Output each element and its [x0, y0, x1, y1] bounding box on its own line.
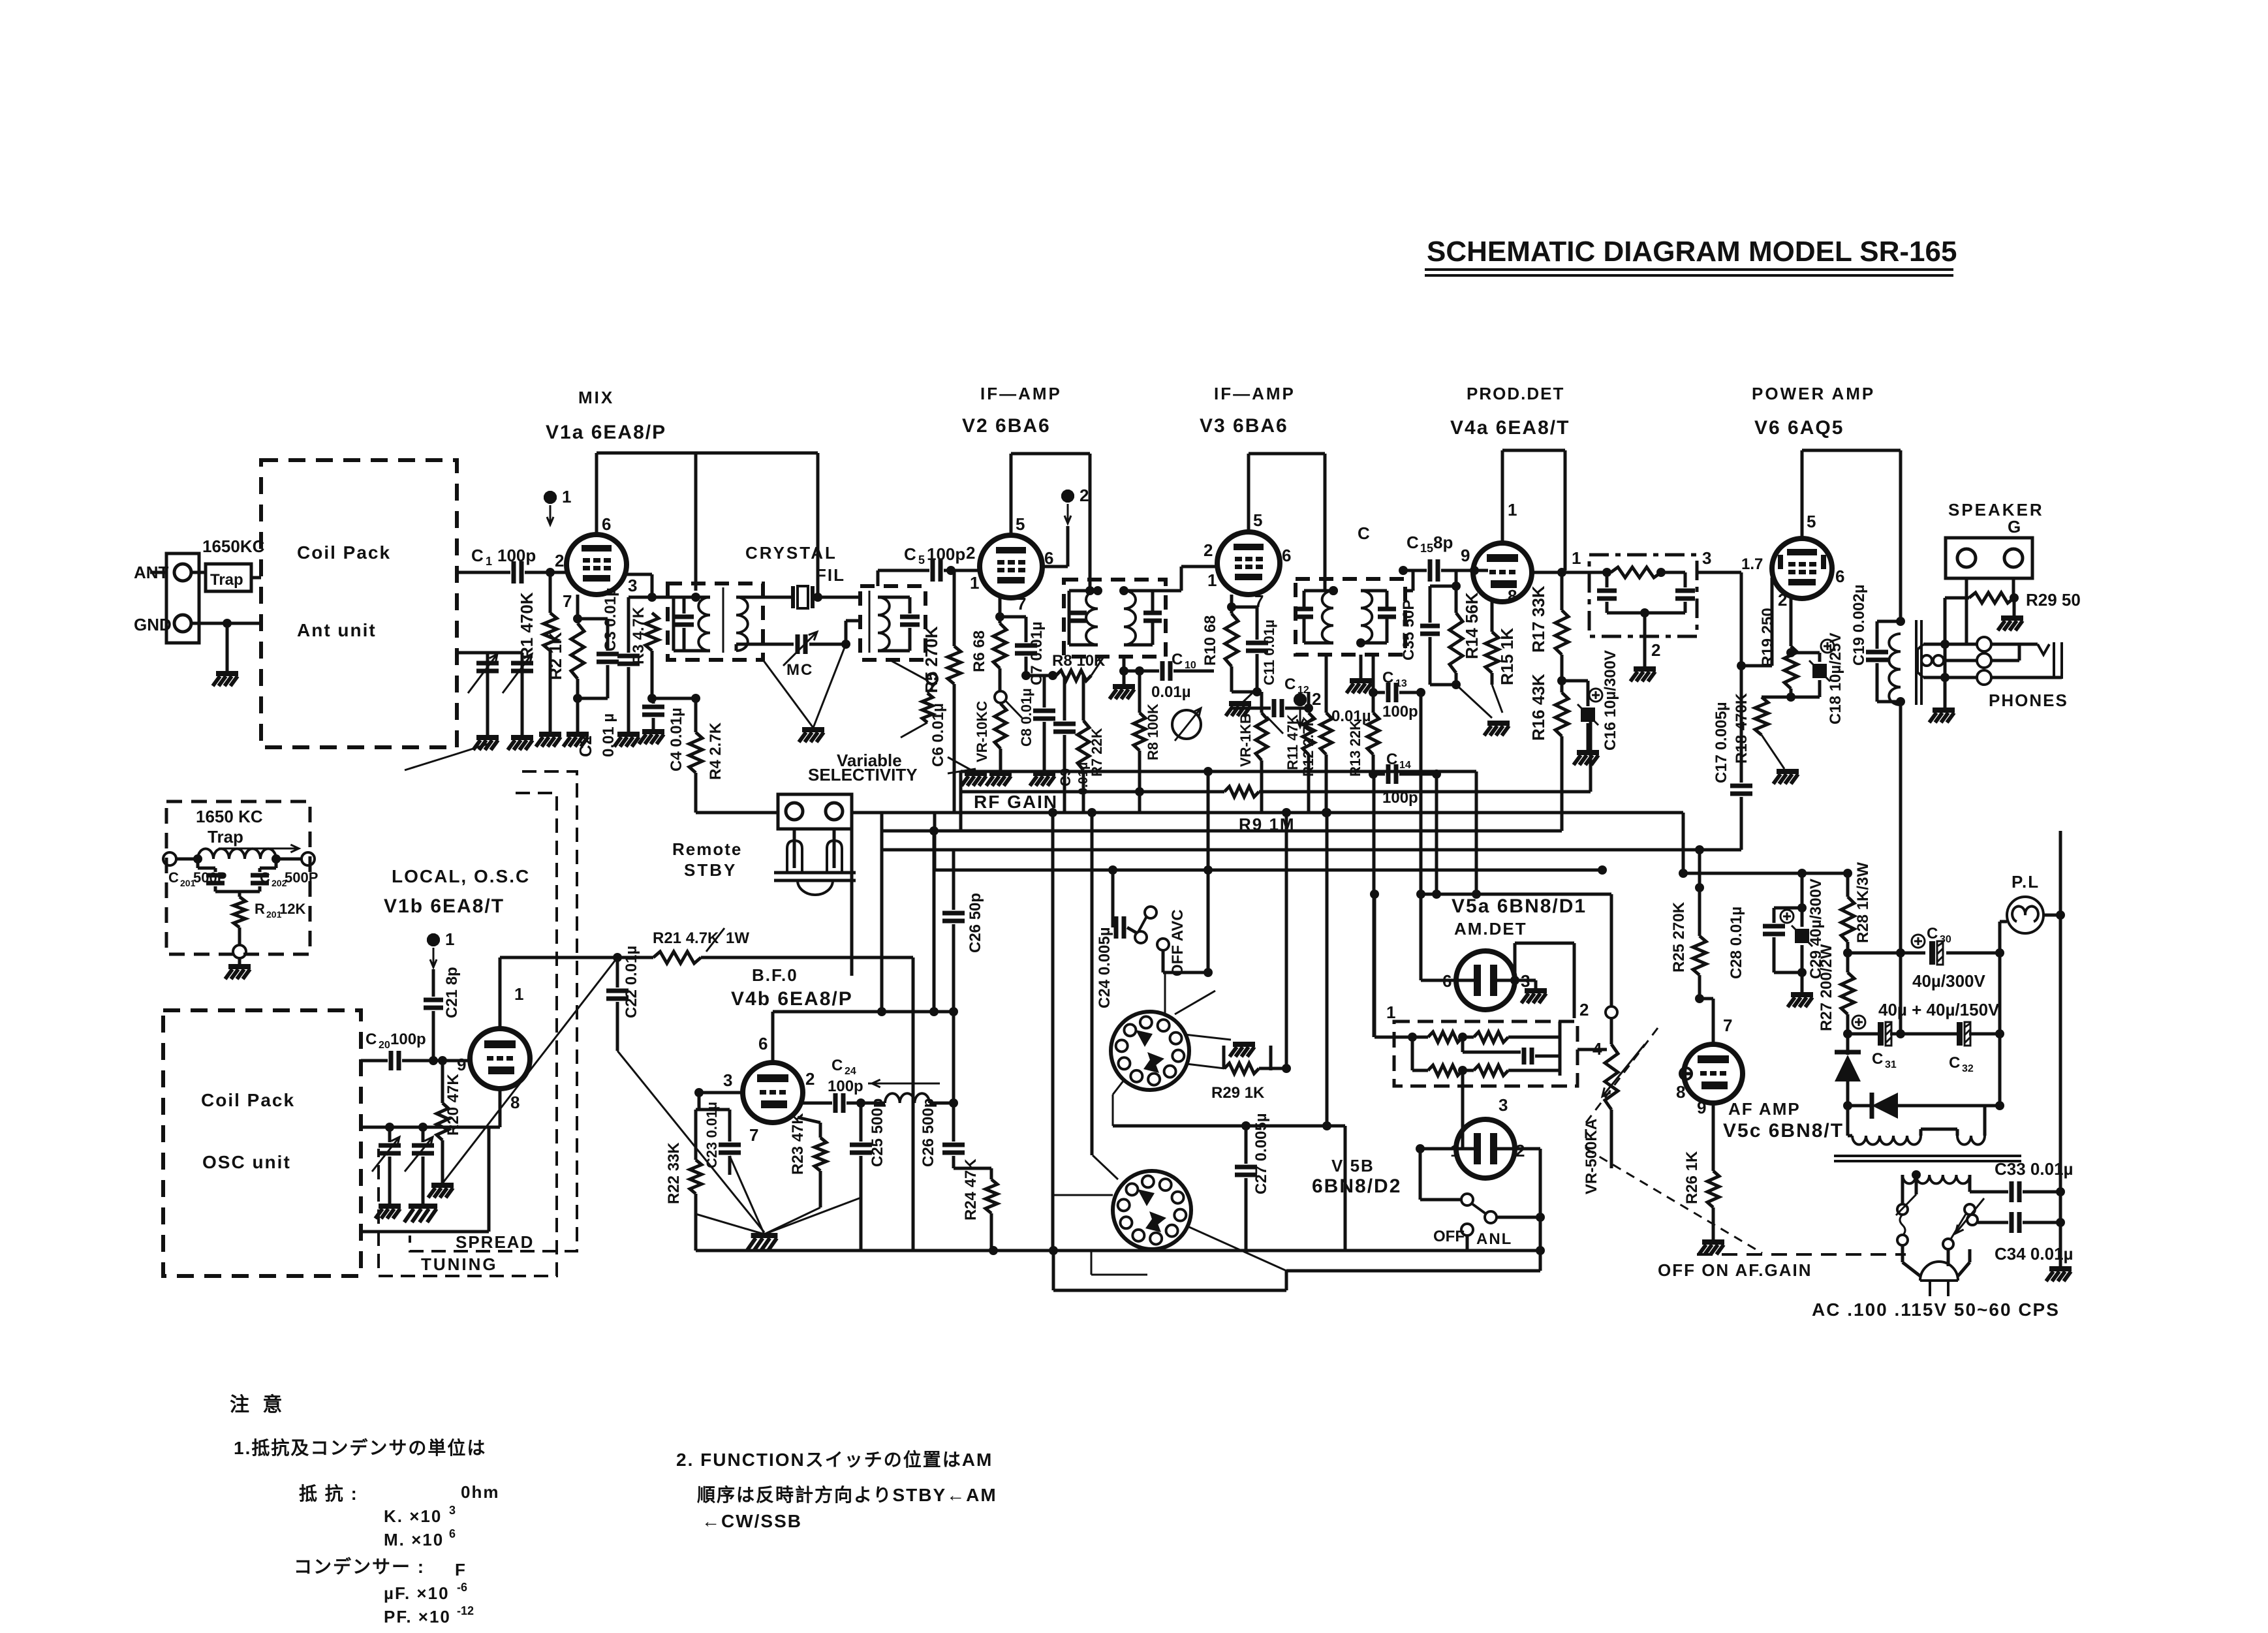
ground V6 cathode — [1773, 771, 1799, 784]
svg-text:20: 20 — [379, 1040, 390, 1051]
wire x1431 drop — [929, 826, 939, 1016]
label Remote — [672, 839, 742, 859]
tube V5a 6BN8/D1 — [1456, 951, 1515, 1010]
resistor R1 470K — [517, 572, 561, 747]
wire box pin2 — [1559, 1021, 1562, 1037]
resistor R10 68 — [1202, 595, 1238, 692]
capacitor C18 10u/25V — [1791, 632, 1844, 724]
wire V4a out right — [1532, 568, 1589, 577]
svg-text:6: 6 — [1835, 567, 1844, 586]
svg-text:ANL: ANL — [1476, 1230, 1512, 1248]
label 6BN8/D2 — [1312, 1175, 1401, 1197]
label RF GAIN — [974, 792, 1058, 812]
socket S1 leads — [1113, 972, 1231, 1126]
pin 8 label V5c — [1676, 1082, 1685, 1102]
svg-text:C: C — [1284, 676, 1296, 693]
svg-text:R6 68: R6 68 — [971, 630, 988, 672]
capacitor C31 — [1843, 1016, 1957, 1070]
resistor R2 1K — [546, 595, 589, 747]
svg-text:PF. ×10: PF. ×10 — [384, 1607, 451, 1626]
note 1 resistors — [234, 1437, 486, 1458]
label V5c 6BN8/T — [1723, 1120, 1844, 1142]
note K — [384, 1504, 456, 1526]
resistor R6 68 — [971, 598, 1006, 691]
wire bus y1916 right — [1053, 1246, 1545, 1255]
wire V4a plate — [1502, 450, 1565, 570]
resistor R8 10K horizontal — [1026, 652, 1106, 681]
capacitor C35 50P — [1400, 586, 1456, 685]
svg-text:C22 0.01µ: C22 0.01µ — [623, 946, 640, 1018]
capacitor C202 500P — [251, 859, 318, 892]
svg-text:C19 0.002µ: C19 0.002µ — [1850, 584, 1868, 666]
svg-text:5: 5 — [1807, 512, 1816, 531]
node GND junction — [223, 619, 232, 628]
svg-text:R25 270K: R25 270K — [1670, 901, 1688, 972]
variable capacitor C-ant2 — [488, 653, 533, 750]
resistor R4 2.7K — [689, 698, 724, 813]
svg-text:C4 0.01µ: C4 0.01µ — [668, 708, 685, 771]
capacitor C20 100p — [361, 1031, 470, 1070]
svg-text:6: 6 — [602, 514, 611, 534]
wire ANT to trap — [150, 571, 206, 574]
wire T1 sec bottom to MC — [736, 644, 763, 651]
pin 3 label box — [0, 0, 1, 1]
label V5B — [1331, 1156, 1375, 1175]
wire VR wiper to V5c — [1680, 1068, 1692, 1080]
socket S2 leads — [1054, 1155, 1286, 1275]
wire R3-R4 — [652, 697, 696, 700]
svg-text:30: 30 — [1940, 934, 1951, 945]
svg-text:2: 2 — [1080, 486, 1089, 505]
wire V2 pin6 heater — [1042, 526, 1068, 567]
svg-text:C: C — [365, 1031, 377, 1048]
svg-text:R: R — [255, 901, 265, 917]
svg-text:C16 10µ/300V: C16 10µ/300V — [1602, 650, 1619, 751]
label CRYSTAL — [745, 543, 837, 563]
svg-text:抵 抗 :: 抵 抗 : — [299, 1483, 358, 1504]
wire selectivity switch — [890, 660, 937, 738]
svg-text:5: 5 — [1016, 514, 1025, 534]
note cwssb — [702, 1511, 802, 1531]
label PHONES — [1989, 691, 2068, 710]
capacitor T5 left — [1597, 572, 1617, 613]
svg-text:2: 2 — [1204, 540, 1213, 560]
variable capacitor osc1 — [372, 1127, 401, 1219]
svg-text:-6: -6 — [457, 1581, 467, 1594]
pin 1 label V5b — [1450, 1141, 1459, 1160]
tube V5c 6BN8/T — [1684, 1044, 1743, 1103]
svg-text:V2 6BA6: V2 6BA6 — [962, 415, 1051, 437]
wire bus y1333 — [935, 865, 1607, 875]
resistor R17 33K — [1529, 572, 1568, 692]
wire T1 secondary to crystal — [736, 596, 793, 599]
resistor R18 470K — [1733, 692, 1791, 769]
coil T4 secondary — [1361, 591, 1372, 643]
capacitor T2 tuning — [878, 597, 920, 651]
svg-text:0.01 µ: 0.01 µ — [600, 713, 617, 757]
wire V5a right gnd — [1510, 976, 1547, 1003]
svg-text:Remote: Remote — [672, 839, 742, 859]
svg-text:コンデンサー :: コンデンサー : — [294, 1556, 425, 1577]
svg-text:1: 1 — [970, 573, 979, 593]
pin 7 label V3 — [1254, 591, 1264, 611]
IF transformer T1 box — [668, 583, 763, 660]
dashed af gain line — [1697, 1253, 1906, 1256]
capacitor T4 left — [1295, 591, 1333, 643]
capacitor C7 0.01u — [1000, 617, 1046, 685]
tube socket S1 — [1111, 1012, 1189, 1090]
svg-text:OFF: OFF — [1433, 1228, 1465, 1245]
resistor R19 250 — [1759, 599, 1797, 702]
svg-text:注 意: 注 意 — [230, 1393, 286, 1416]
svg-text:IF—AMP: IF—AMP — [1214, 384, 1296, 403]
node C5 out — [946, 566, 955, 575]
label C above C15 — [1358, 523, 1370, 543]
svg-text:2: 2 — [555, 551, 564, 570]
svg-text:R21 4.7K: R21 4.7K — [653, 929, 719, 947]
diagonal R20 to C22 node — [443, 957, 617, 1183]
svg-text:OFF ON AF.GAIN: OFF ON AF.GAIN — [1658, 1260, 1812, 1280]
label TUNING — [421, 1254, 498, 1274]
svg-text:SCHEMATIC DIAGRAM MODEL SR-165: SCHEMATIC DIAGRAM MODEL SR-165 — [1427, 236, 1957, 268]
svg-text:R15 1K: R15 1K — [1497, 628, 1517, 685]
capacitor C14 100p — [1369, 751, 1441, 807]
label V1a 6EA8/P — [546, 422, 666, 443]
wire GND to coilpack — [191, 622, 261, 625]
coil T2 — [878, 597, 890, 651]
node MC right — [841, 621, 860, 649]
svg-text:R17 33K: R17 33K — [1529, 585, 1548, 653]
svg-text:2: 2 — [1651, 640, 1660, 660]
wire bus y1213 — [961, 787, 1224, 796]
heater 2 V2 — [1061, 486, 1089, 523]
tube V3 6BA6 — [1217, 532, 1280, 595]
svg-text:8: 8 — [510, 1093, 520, 1112]
svg-text:100p: 100p — [390, 1031, 426, 1048]
pin 9 label V5c — [1697, 1098, 1706, 1117]
ground T4 — [1346, 655, 1372, 693]
svg-text:C24 0.005µ: C24 0.005µ — [1096, 927, 1113, 1008]
svg-text:R29 50: R29 50 — [2026, 590, 2081, 610]
pin 9 label V1b — [457, 1055, 466, 1074]
svg-text:R23 47K: R23 47K — [789, 1113, 807, 1175]
svg-text:1.抵抗及コンデンサの単位は: 1.抵抗及コンデンサの単位は — [234, 1437, 486, 1458]
ground V4a — [1456, 685, 1510, 736]
pin 6 label V1a — [602, 514, 611, 534]
label V2 6BA6 — [962, 415, 1051, 437]
wire V4b plate loop — [773, 1007, 958, 1063]
pin 7 label V1a — [563, 591, 572, 611]
label V4b 6EA8/P — [731, 988, 853, 1010]
note M — [384, 1527, 456, 1549]
label V1b 6EA8/T — [384, 895, 505, 917]
wire bus y1977 — [1053, 1251, 1540, 1290]
svg-text:VR-10KC: VR-10KC — [974, 701, 990, 762]
resistor R13 22K — [1347, 655, 1379, 777]
svg-text:40µ/300V: 40µ/300V — [1912, 971, 1986, 991]
wire vert x1613 — [1051, 813, 1055, 1251]
pin 4 label box — [1592, 1039, 1602, 1059]
svg-text:B.F.0: B.F.0 — [752, 965, 798, 985]
resistor R24 47K — [954, 1159, 997, 1251]
svg-text:R13 22K: R13 22K — [1347, 720, 1363, 777]
svg-text:31: 31 — [1885, 1059, 1897, 1070]
resistor R3 4.7K — [630, 606, 659, 698]
capacitor C33 0.01u — [1970, 1159, 2074, 1202]
ground V3 mid — [1226, 689, 1257, 716]
heater 1 V1b — [427, 929, 454, 967]
wire bus rfgain — [852, 808, 1683, 817]
pin 6 label V3 — [1282, 546, 1291, 565]
label PROD.DET — [1467, 384, 1564, 403]
svg-text:1: 1 — [445, 929, 454, 949]
pin 8 label V4a — [1508, 586, 1517, 606]
capacitor C28 label — [0, 0, 1, 1]
variable capacitor C-ant1 — [457, 653, 499, 750]
capacitor T3 right — [1124, 591, 1162, 645]
svg-text:←CW/SSB: ←CW/SSB — [702, 1511, 802, 1531]
resistor T5 — [1589, 567, 1685, 578]
svg-text:12K: 12K — [279, 901, 305, 917]
svg-text:R29 1K: R29 1K — [1211, 1084, 1265, 1102]
node grid V1a — [546, 568, 555, 577]
coil T3 primary — [1086, 591, 1098, 645]
capacitor C28 0.01u ps — [1728, 903, 1807, 979]
svg-text:SPEAKER: SPEAKER — [1948, 500, 2044, 520]
label Trap2 — [208, 827, 243, 847]
wire V1b grid junction — [426, 1059, 433, 1063]
pin 2 label box — [1579, 1000, 1589, 1019]
pin 5 label V2 — [1016, 514, 1025, 534]
wire T3 sec to V3 grid — [1153, 567, 1217, 591]
coil T4 primary — [1322, 591, 1333, 643]
resistor R7 22K — [1078, 676, 1105, 813]
svg-text:0hm: 0hm — [461, 1482, 499, 1502]
capacitor C24 0.005u sw — [1096, 865, 1136, 1008]
label AC 100 115V — [1812, 1299, 2060, 1320]
ground R29 — [1998, 598, 2023, 630]
svg-text:C8 0.01µ: C8 0.01µ — [1018, 688, 1034, 747]
wire bus y1302 — [882, 845, 1741, 854]
svg-text:6: 6 — [758, 1034, 768, 1053]
label MIX — [578, 388, 614, 407]
label Variable — [837, 751, 902, 770]
svg-text:V4b 6EA8/P: V4b 6EA8/P — [731, 988, 853, 1010]
svg-text:C3 0.01µ: C3 0.01µ — [602, 587, 619, 651]
remote STBY jack — [774, 794, 856, 895]
node trap2 — [193, 854, 281, 863]
svg-text:100p: 100p — [1382, 703, 1418, 721]
svg-text:C: C — [1949, 1054, 1960, 1072]
wire speaker right — [2012, 578, 2015, 598]
svg-text:MC: MC — [786, 661, 813, 679]
svg-text:R10 68: R10 68 — [1202, 615, 1219, 666]
node cathode bottom — [573, 694, 582, 703]
svg-text:6: 6 — [449, 1527, 456, 1540]
pin 7 label V4b — [749, 1125, 758, 1145]
svg-text:0.01µ: 0.01µ — [1151, 683, 1191, 701]
node pin3 — [647, 593, 657, 602]
wire V6 plate loop — [1802, 450, 1901, 621]
switch AC 2 — [1943, 1198, 1984, 1249]
svg-text:C35 50P: C35 50P — [1400, 600, 1418, 661]
svg-text:R19 250: R19 250 — [1759, 608, 1777, 667]
wire V5a left — [1416, 692, 1456, 980]
capacitor C19 0.002u — [1850, 584, 1905, 706]
svg-text:RF GAIN: RF GAIN — [974, 792, 1058, 812]
filter T5 box — [1589, 555, 1697, 636]
resistor boxR1 — [1375, 1032, 1467, 1042]
svg-text:R2 1K: R2 1K — [546, 632, 565, 680]
pin 3 label V1a — [628, 576, 637, 595]
wire C22 diagonal — [617, 1051, 764, 1232]
svg-text:V5a 6BN8/D1: V5a 6BN8/D1 — [1452, 895, 1587, 917]
svg-text:TUNING: TUNING — [421, 1254, 498, 1274]
ground cluster V2 — [948, 757, 987, 786]
wire right bus top — [0, 0, 1, 1]
capacitor C5 100p — [904, 544, 981, 582]
label IF-AMP V3 — [1214, 384, 1296, 403]
resistor R5 270K — [922, 570, 961, 813]
pin 17 label V6 — [1741, 555, 1763, 573]
wire box pin3 — [1461, 1070, 1465, 1119]
svg-text:OFF AVC: OFF AVC — [1169, 909, 1187, 976]
svg-text:PROD.DET: PROD.DET — [1467, 384, 1564, 403]
wire vert x2106 — [1373, 774, 1376, 1037]
svg-text:C17 0.005µ: C17 0.005µ — [1713, 702, 1730, 783]
svg-text:µF. ×10: µF. ×10 — [384, 1583, 450, 1603]
svg-text:C11 0.01µ: C11 0.01µ — [1261, 619, 1277, 685]
wire OPT down — [1899, 702, 1903, 1034]
svg-text:1: 1 — [1386, 1003, 1395, 1022]
capacitor box C — [1463, 1037, 1560, 1076]
trap2 coil — [176, 845, 302, 859]
svg-text:500P: 500P — [285, 869, 318, 886]
wire trap to coilpack — [251, 576, 261, 580]
potentiometer VR-1KB — [1237, 692, 1283, 813]
svg-text:-12: -12 — [457, 1604, 474, 1617]
note ohm — [461, 1482, 499, 1502]
svg-text:順序は反時計方向よりSTBY←AM: 順序は反時計方向よりSTBY←AM — [697, 1484, 997, 1505]
resistor R22 33K — [665, 1110, 702, 1251]
capacitor T4 right — [1361, 591, 1396, 643]
wire box pin1 — [1370, 890, 1379, 1037]
label 1650 KC — [196, 807, 263, 826]
svg-text:1: 1 — [1572, 548, 1581, 568]
wire vert x1472 — [959, 771, 963, 831]
capacitor C11 0.01u — [1232, 607, 1277, 692]
tube V1a 6EA8/P — [567, 535, 627, 595]
capacitor C34 0.01u — [1967, 1212, 2074, 1264]
resistor R25 270K — [1670, 850, 1706, 1003]
speaker terminal box — [1946, 538, 2032, 578]
phones jack — [1918, 637, 2062, 685]
svg-text:V5c 6BN8/T: V5c 6BN8/T — [1723, 1120, 1844, 1142]
svg-text:C: C — [904, 544, 916, 564]
capacitor C32 — [1949, 953, 2004, 1074]
heater 1 V1a — [544, 487, 571, 525]
resistor R201 12K — [215, 892, 305, 945]
resistor R20 47K — [428, 1056, 462, 1198]
wire vert x1673 — [1091, 813, 1094, 1155]
svg-text:Trap: Trap — [208, 827, 243, 847]
capacitor C29 40u/300V — [1774, 873, 1825, 1007]
capacitor C201 500P — [168, 859, 226, 892]
svg-text:OSC unit: OSC unit — [202, 1152, 291, 1172]
wire V1a plate to T1 — [597, 453, 818, 591]
svg-text:7: 7 — [1723, 1016, 1732, 1035]
svg-text:6: 6 — [1282, 546, 1291, 565]
svg-text:C27 0.005µ: C27 0.005µ — [1252, 1113, 1270, 1194]
resistor R14 56K — [1450, 570, 1482, 689]
svg-text:STBY: STBY — [684, 860, 737, 880]
svg-text:R8 100K: R8 100K — [1145, 704, 1161, 760]
label BFO — [752, 965, 798, 985]
svg-text:R18 470K: R18 470K — [1733, 692, 1750, 764]
svg-text:9: 9 — [1697, 1098, 1706, 1117]
svg-text:100p: 100p — [497, 546, 536, 565]
wire right bus — [2046, 831, 2072, 1281]
pin 2 label V4b — [805, 1069, 815, 1089]
svg-text:C: C — [831, 1057, 843, 1074]
resistor R28 1K/3W — [1841, 862, 1872, 957]
capacitor C3 0.01u — [602, 587, 640, 747]
svg-text:1: 1 — [1450, 1141, 1459, 1160]
svg-text:R14 56K: R14 56K — [1462, 592, 1482, 659]
tube V6 6AQ5 — [1772, 538, 1832, 599]
label 40+40/150V — [1878, 1000, 2000, 1019]
capacitor C12 — [1232, 676, 1313, 717]
svg-text:2: 2 — [966, 543, 975, 563]
capacitor C1 100p — [457, 546, 567, 583]
pin 7 label V2 — [1017, 594, 1026, 614]
node C20 out — [429, 1056, 438, 1065]
wire V6 grid — [1737, 572, 1772, 670]
label SPREAD — [456, 1232, 534, 1252]
label SPEAKER — [1948, 500, 2044, 520]
label 0.01u T4 — [1331, 708, 1371, 725]
svg-text:3: 3 — [628, 576, 637, 595]
dashed gang line tuning — [379, 793, 557, 1276]
svg-text:C6 0.01µ: C6 0.01µ — [929, 703, 947, 767]
svg-text:8: 8 — [1508, 586, 1517, 606]
AC plug — [1903, 1245, 1970, 1296]
diode D2 — [1843, 1034, 2004, 1119]
note condenser — [294, 1556, 425, 1577]
svg-text:1.7: 1.7 — [1741, 555, 1763, 573]
svg-text:R26 1K: R26 1K — [1683, 1151, 1701, 1204]
svg-text:V3 6BA6: V3 6BA6 — [1200, 415, 1288, 437]
svg-text:LOCAL, O.S.C: LOCAL, O.S.C — [392, 866, 530, 886]
svg-text:6BN8/D2: 6BN8/D2 — [1312, 1175, 1401, 1197]
wire V5b right — [1515, 1149, 1540, 1217]
svg-text:C: C — [168, 869, 179, 886]
wire V3 plate right — [1325, 454, 1338, 595]
pin 6 label V2 — [1044, 548, 1053, 568]
capacitor C9 0.01u — [1053, 676, 1091, 813]
svg-text:R27 200/2W: R27 200/2W — [1818, 944, 1835, 1031]
svg-text:C: C — [260, 869, 270, 886]
pin 2 label V5b — [1515, 1141, 1525, 1160]
label STBY — [684, 860, 737, 880]
transformer primary — [1848, 1081, 1957, 1145]
svg-text:C: C — [1406, 533, 1419, 552]
capacitor C8 0.01u — [1018, 676, 1055, 786]
coil pack ant unit box — [261, 460, 457, 747]
pin 3 label V5b — [1499, 1095, 1508, 1115]
wire bus y1273 — [882, 830, 1562, 833]
ground T5 — [1630, 613, 1656, 681]
